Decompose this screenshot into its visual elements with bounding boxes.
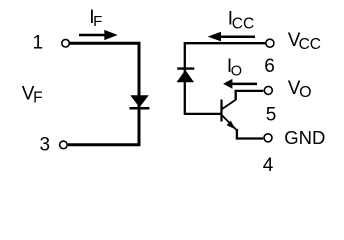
svg-text:3: 3 <box>40 135 51 156</box>
svg-text:4: 4 <box>263 155 274 176</box>
svg-text:5: 5 <box>266 105 277 126</box>
svg-text:1: 1 <box>33 32 44 53</box>
svg-text:6: 6 <box>264 56 275 77</box>
svg-text:GND: GND <box>284 127 325 148</box>
